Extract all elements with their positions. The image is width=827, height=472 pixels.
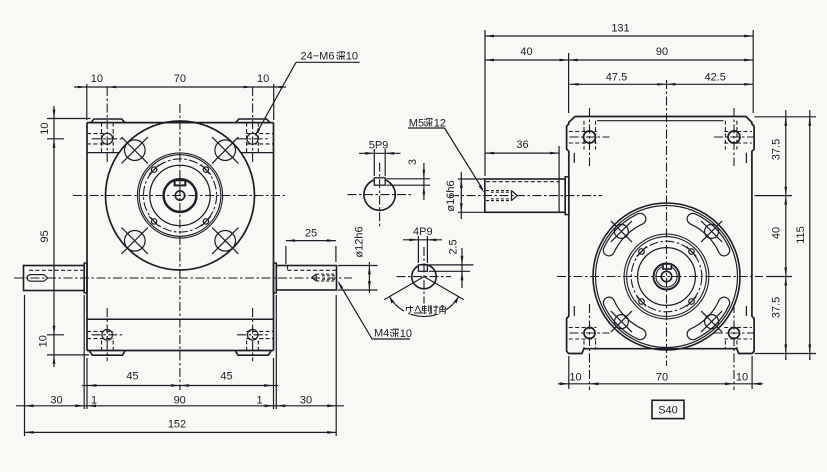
label M5 depth 12 with leader	[408, 127, 445, 129]
left view: top-left tab boss bottom line	[87, 152, 119, 154]
dimension 131 top	[484, 30, 486, 176]
label cam indexing angle	[404, 304, 446, 315]
svg-text:131: 131	[611, 23, 629, 35]
detail: input end view centerlines	[423, 247, 425, 304]
right view: input bore circle bold	[654, 264, 680, 290]
svg-text:M5: M5	[409, 117, 424, 129]
svg-text:10: 10	[346, 51, 358, 63]
right view: corner tab hidden bores	[569, 131, 597, 133]
left view: left shaft hidden keyway line	[29, 269, 83, 271]
cam indexing angle dimension arc	[389, 297, 458, 317]
right view: output shaft	[485, 179, 565, 212]
left view: flange circle	[106, 121, 255, 270]
left view: bottom-left foot	[89, 351, 125, 356]
svg-text:152: 152	[168, 419, 186, 431]
right view: arc slot SE	[687, 297, 730, 340]
svg-text:30: 30	[300, 394, 312, 406]
right view: inner top edge between lugs	[597, 120, 724, 122]
left view: vertical centerline	[179, 104, 181, 390]
svg-text:5P9: 5P9	[369, 140, 389, 152]
dimension 2.5 keyway depth	[429, 264, 474, 266]
left view: bottom-right foot	[235, 351, 271, 356]
right view: input axis centerline	[557, 276, 763, 278]
left view: center pilot circle	[175, 191, 184, 200]
dimension 40-90	[568, 53, 570, 113]
svg-text:30: 30	[50, 394, 62, 406]
svg-text:ø16h6: ø16h6	[445, 180, 457, 211]
right view: vertical centerline	[666, 80, 668, 366]
left view: input shaft right	[276, 266, 336, 291]
svg-text:10: 10	[569, 372, 581, 384]
left view: input axis centerline	[14, 277, 352, 279]
left view: 4 large M6 holes with cross ticks	[125, 140, 146, 161]
dimension 47.5-42.5	[570, 83, 754, 85]
left view: flange horizontal centerline	[73, 195, 287, 197]
svg-text:10: 10	[257, 73, 269, 85]
left view: top tab hidden bores	[87, 133, 113, 135]
cam indexing angle radial lines	[384, 277, 424, 300]
dimension 10-95-10 left of left view	[53, 106, 55, 367]
svg-text:S40: S40	[658, 405, 678, 417]
left view: right shaft collar	[274, 263, 277, 293]
right view: arc slot NE	[687, 213, 730, 256]
dimension 115 far right	[809, 110, 811, 360]
left view: top-right tab raised lug	[236, 119, 270, 123]
svg-text:70: 70	[656, 372, 668, 384]
right view: input bore chamfer circle	[656, 266, 677, 287]
svg-text:24−M6: 24−M6	[301, 51, 335, 63]
svg-text:3: 3	[407, 159, 419, 165]
right view: arc slot SW	[603, 297, 646, 340]
right view: 4 access holes with cross ticks	[614, 224, 628, 238]
svg-text:37.5: 37.5	[771, 297, 783, 318]
left view: main body outline	[86, 123, 88, 351]
right view: tab fillet lines	[573, 153, 575, 163]
svg-text:10: 10	[39, 122, 51, 134]
left view: left shaft keyway slot	[31, 274, 45, 276]
left view: bottom plate top line	[87, 318, 274, 320]
left view: output shaft left	[24, 266, 85, 291]
svg-text:40: 40	[771, 227, 783, 239]
S40 designation box	[652, 400, 684, 418]
label M4 depth 10 with leader	[372, 338, 410, 340]
left view: bottom tab holes	[102, 330, 113, 341]
svg-text:4P9: 4P9	[413, 226, 433, 238]
detail: output shaft end view circle phi16	[364, 179, 395, 210]
dimension 30-1-90-1-30 row	[83, 295, 85, 409]
right view: center pilot circle	[661, 271, 671, 281]
detail: input shaft end view circle phi12	[412, 264, 436, 288]
svg-text:M4: M4	[374, 328, 389, 340]
left view: outer ring pair	[137, 153, 222, 238]
left view: right shaft hidden keyway line	[288, 269, 337, 271]
left view: output bore circle (bold)	[164, 179, 197, 212]
dimension 152 bottom	[25, 431, 337, 433]
svg-text:36: 36	[516, 139, 528, 151]
dimension 45-45 bottom of left view	[86, 358, 88, 409]
svg-text:115: 115	[795, 226, 807, 244]
detail: output end view centerlines	[379, 163, 381, 227]
svg-text:1: 1	[91, 394, 97, 406]
svg-text:40: 40	[520, 46, 532, 58]
svg-text:47.5: 47.5	[606, 72, 627, 84]
dimension phi16h6	[458, 178, 484, 180]
left view: top-left tab raised lug	[91, 119, 125, 123]
right view: recess circle	[638, 248, 696, 306]
left view: 4 small screw holes with ticks	[151, 167, 156, 172]
dimension 37.5-40-37.5 right side	[755, 116, 817, 118]
svg-text:10: 10	[736, 372, 748, 384]
svg-text:70: 70	[174, 73, 186, 85]
svg-text:10: 10	[38, 335, 50, 347]
svg-text:1: 1	[256, 394, 262, 406]
svg-text:45: 45	[220, 371, 232, 383]
left view: left shaft collar	[84, 263, 87, 293]
right view: middle ring pair	[624, 234, 709, 319]
left view: top-right tab boss bottom line	[241, 152, 274, 154]
svg-text:90: 90	[174, 394, 186, 406]
right view: corner tab holes	[584, 131, 596, 143]
svg-text:ø12h6: ø12h6	[354, 226, 366, 257]
dimension 5P9	[373, 149, 375, 176]
right view: output shaft collar	[565, 177, 569, 215]
svg-text:2.5: 2.5	[448, 239, 460, 254]
svg-text:10: 10	[91, 73, 103, 85]
dimension 10-70-10 bottom of right view	[568, 356, 570, 389]
left view: top tab holes	[102, 133, 113, 144]
left view: output bore keyway 5P9	[175, 180, 186, 185]
svg-text:90: 90	[656, 46, 668, 58]
left view: bottom tab hidden bores	[87, 330, 113, 332]
svg-text:95: 95	[39, 230, 51, 242]
right view: output axis centerline	[450, 195, 602, 197]
right view: arc slot NW	[603, 213, 646, 256]
right view: M5 tapped hole in shaft end	[486, 190, 512, 192]
dimension 4P9	[417, 236, 419, 263]
dimension 10-70-10 top of left view	[86, 84, 88, 120]
right view: body outline	[567, 117, 755, 354]
svg-text:25: 25	[305, 227, 317, 239]
dimension phi12h6 input shaft	[338, 265, 378, 267]
dimension 25 input shaft	[285, 246, 287, 264]
svg-text:42.5: 42.5	[704, 72, 725, 84]
svg-text:37.5: 37.5	[771, 139, 783, 160]
right view: 4 small screws with ticks	[639, 249, 645, 255]
detail: input keyway 4P9 notch	[418, 265, 427, 271]
svg-text:45: 45	[126, 371, 138, 383]
svg-text:10: 10	[400, 328, 412, 340]
label 24-M6 depth 10 with leader	[296, 61, 360, 63]
left view: recess circle	[150, 165, 210, 225]
dimension 3 keyway depth	[387, 178, 431, 180]
svg-text:12: 12	[434, 117, 446, 129]
detail: output keyway 5P9 notch	[374, 178, 385, 185]
right view: input keyway notch	[663, 264, 671, 269]
dimension 36 keyway length	[558, 146, 560, 213]
right view: flange ring pair	[593, 203, 740, 350]
right view: output shaft hidden keyway	[486, 181, 559, 183]
left view: M4 tapped hole in right shaft end	[316, 273, 336, 275]
left view: bolt circle (dash-dot)	[143, 159, 216, 232]
right view: screw bolt circle dash-dot	[631, 241, 702, 312]
